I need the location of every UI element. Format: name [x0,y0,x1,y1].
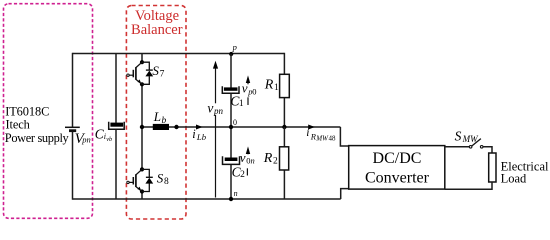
svg-text:7: 7 [160,70,165,80]
label node 0 [233,118,237,127]
wire R2 branch [283,127,285,199]
svg-text:n: n [251,156,255,166]
svg-text:1: 1 [274,83,279,93]
wire R branch top [283,53,285,127]
transistor S8 (IGBT with antiparallel diode) [127,167,153,193]
label IT6018C Itech Power supply [5,105,70,145]
svg-text:S: S [152,63,159,78]
wire into converter input top [340,127,348,146]
resistor R1 [280,74,290,97]
wire switch to load [483,147,492,153]
DC/DC converter box [349,146,445,190]
label S8 [157,170,169,187]
current arrow i_RMW48 [308,125,315,130]
node R junction dot [282,125,286,129]
label R2 [263,151,278,167]
svg-text:1: 1 [239,99,244,109]
node n dot [229,197,233,201]
label DC/DC Converter [365,150,430,187]
label node p [232,42,237,52]
label Electrical Load [501,159,549,185]
svg-text:v: v [240,150,246,165]
svg-text:Balancer: Balancer [131,22,183,38]
label C2 [232,164,246,180]
svg-text:v: v [207,101,213,116]
wire C_ivb branch [115,54,117,200]
label node n [234,189,238,198]
svg-text:Power supply: Power supply [5,131,70,145]
voltage arrow v_p0 [246,75,250,105]
svg-text:n: n [234,189,238,198]
label i_RMW48 [306,127,336,142]
load resistor [489,153,496,182]
svg-text:Lb: Lb [196,132,207,142]
resistor R2 [280,147,289,170]
label C1 [230,93,244,109]
power supply dashed box [4,4,93,219]
wire top rail [73,53,285,55]
wire converter output top [445,146,470,148]
svg-text:MW: MW [315,134,329,142]
svg-text:vb: vb [106,136,112,143]
svg-text:i: i [306,127,309,139]
label v_0n [240,150,255,166]
voltage arrow v_0n [246,146,250,175]
switch S_MW [469,139,483,149]
svg-text:MW: MW [462,134,479,144]
label C_ivb [95,126,112,142]
svg-text:i: i [192,127,196,141]
node junction after Lb [174,125,178,129]
label v_p0 [242,81,257,97]
voltage balancer dashed box [126,6,186,220]
svg-text:S: S [455,128,462,143]
svg-text:2: 2 [273,157,278,167]
wire into converter input bottom [341,189,349,199]
svg-text:Itech: Itech [6,118,31,132]
svg-text:R: R [263,151,273,166]
label V_pn [75,131,91,147]
svg-text:v: v [242,81,248,96]
svg-text:p: p [232,42,237,52]
label v_pn [207,101,223,116]
label R1 [264,77,279,93]
wire load bottom return [445,182,492,189]
svg-text:IT6018C: IT6018C [5,105,49,119]
voltage arrow v_pn [213,61,218,198]
svg-text:R: R [264,77,274,92]
label S7 [152,63,164,80]
svg-text:Converter: Converter [365,169,430,186]
svg-text:pn: pn [81,135,91,145]
svg-text:Load: Load [501,171,527,185]
capacitor C1 [222,86,239,93]
node 0 dot [229,125,233,129]
svg-text:DC/DC: DC/DC [373,150,422,167]
svg-text:0: 0 [252,86,256,96]
svg-text:2: 2 [240,170,245,180]
node junction mid leg [140,125,144,129]
wire phase leg [141,54,143,200]
svg-text:b: b [162,116,167,126]
svg-text:8: 8 [164,177,169,187]
wire middle rail [142,126,340,128]
inductor Lb [153,124,169,130]
svg-text:S: S [157,170,164,185]
label S_MW [455,128,479,144]
battery V_pn [65,127,80,130]
svg-text:48: 48 [329,134,337,142]
node p dot [229,52,233,56]
wire bottom rail [73,198,341,200]
label Lb [153,109,167,126]
capacitor C_ivb [109,122,125,130]
svg-text:0: 0 [233,118,237,127]
current arrow i_Lb [196,125,203,130]
transistor S7 (IGBT with antiparallel diode) [127,60,153,86]
wire capacitor branch [230,54,232,199]
wire battery branch [72,53,74,200]
label i_Lb [192,127,206,142]
capacitor C2 [223,156,240,164]
svg-text:L: L [153,109,161,124]
svg-text:pn: pn [213,106,224,116]
label Voltage Balancer [131,8,183,38]
